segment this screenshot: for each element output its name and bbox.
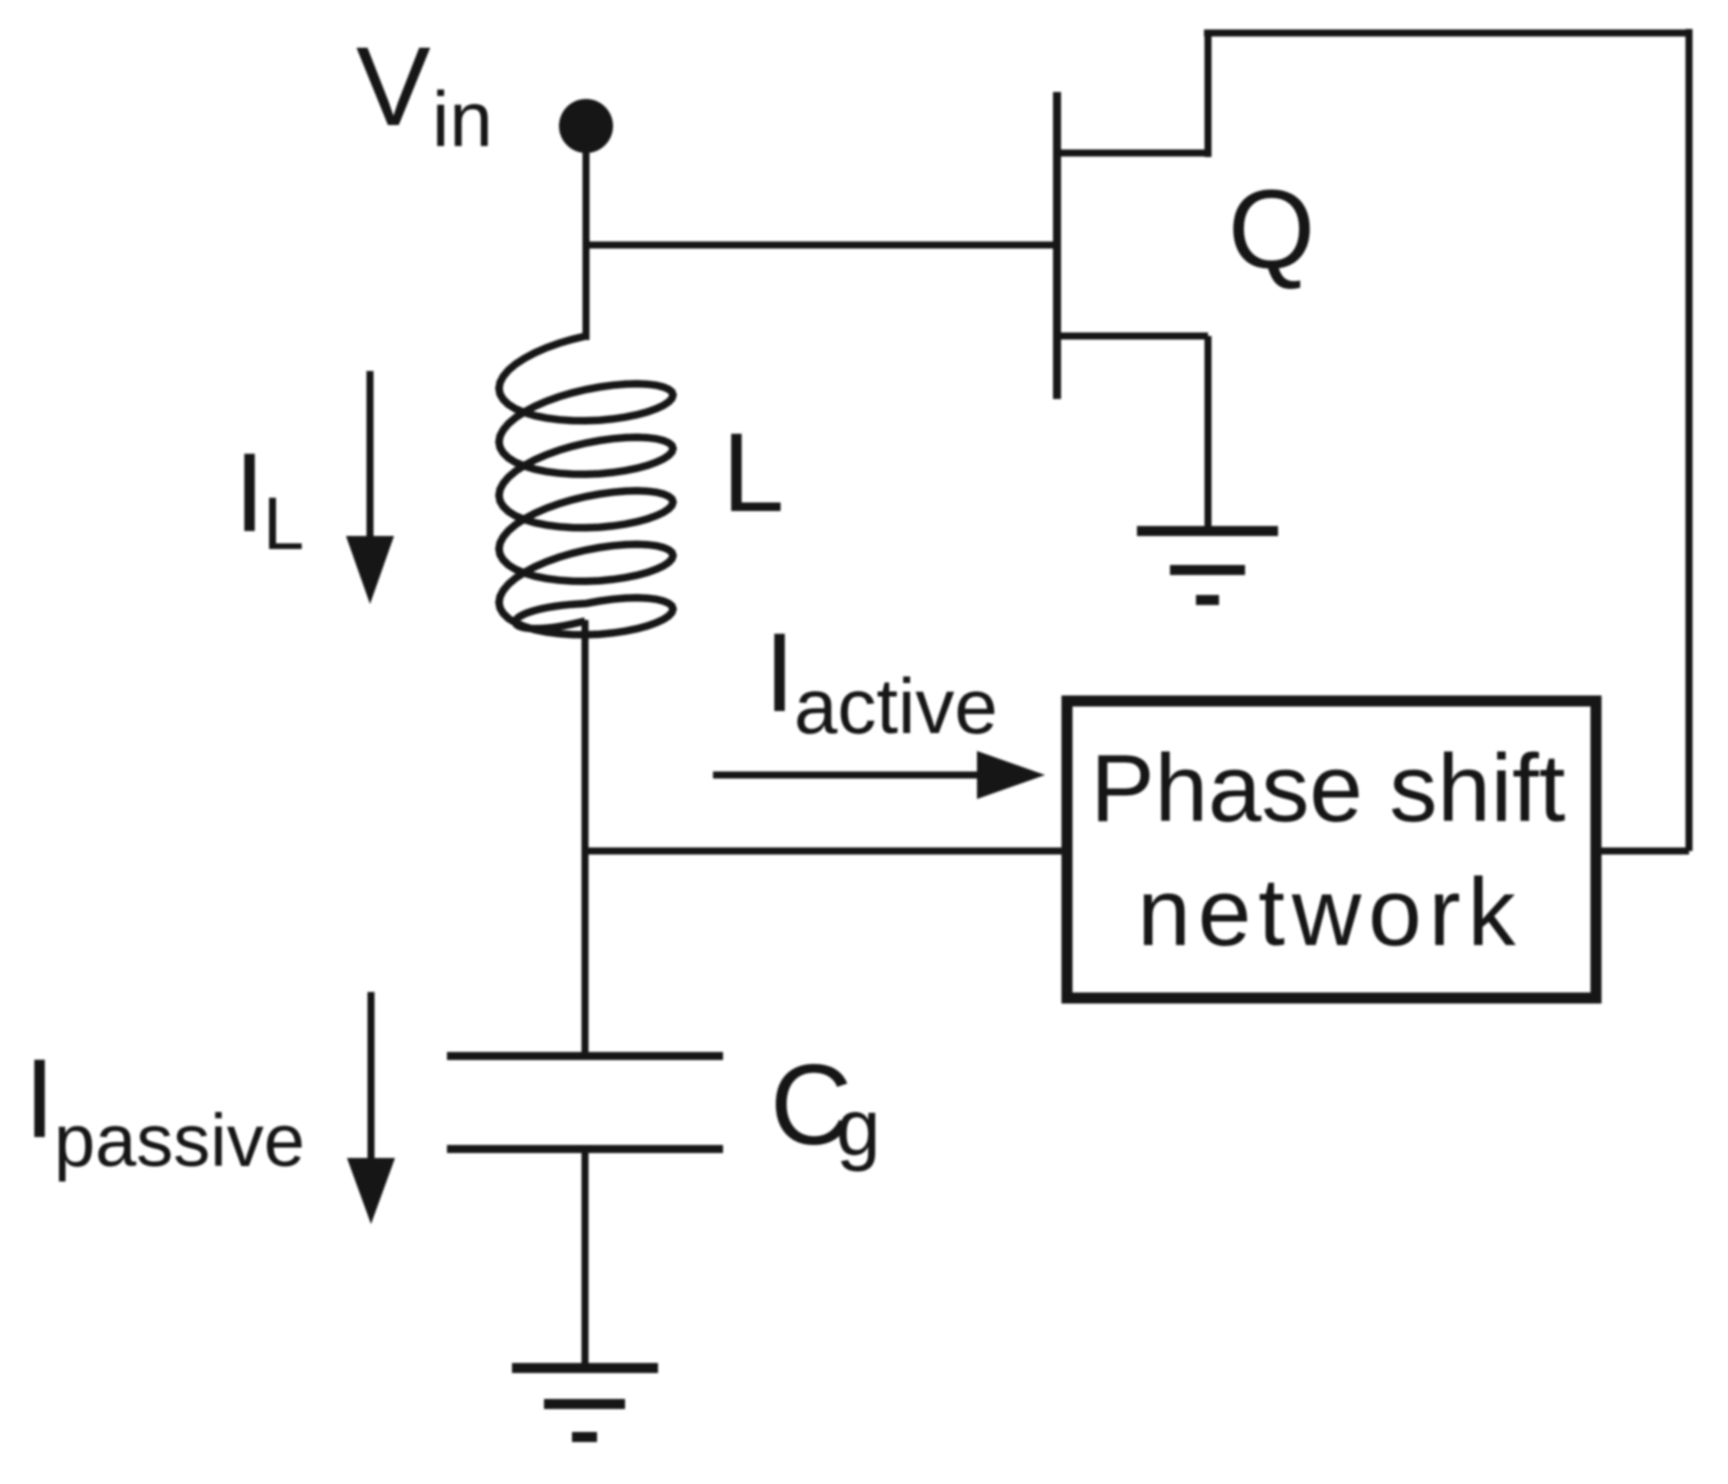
svg-text:g: g bbox=[836, 1083, 881, 1172]
svg-text:Q: Q bbox=[1228, 167, 1315, 292]
transistor Q gate bar bbox=[1053, 92, 1061, 399]
wire feedback right side bbox=[1686, 29, 1693, 851]
transistor Q drain lead bbox=[1057, 150, 1208, 157]
wire inductor bottom to capacitor top plate bbox=[582, 620, 589, 1056]
svg-text:L: L bbox=[263, 482, 304, 565]
svg-text:Phase shift: Phase shift bbox=[1091, 735, 1566, 842]
phase shift network box bbox=[1067, 701, 1596, 998]
svg-text:network: network bbox=[1137, 859, 1522, 966]
inductor L bbox=[499, 336, 673, 635]
svg-text:I: I bbox=[234, 430, 265, 555]
capacitor Cg top plate bbox=[447, 1052, 723, 1060]
svg-text:L: L bbox=[722, 410, 784, 535]
ground (transistor source) bbox=[1137, 531, 1278, 600]
svg-text:I: I bbox=[24, 1036, 55, 1161]
arrow IL (inductor current) bbox=[367, 371, 374, 540]
wire capacitor bottom plate to ground bbox=[582, 1149, 589, 1368]
svg-text:in: in bbox=[432, 75, 493, 163]
svg-text:passive: passive bbox=[54, 1099, 305, 1182]
wire source down to ground bbox=[1205, 336, 1212, 531]
arrow Ipassive (capacitor current) bbox=[368, 992, 375, 1162]
wire feedback to phase shift network output bbox=[1596, 848, 1689, 855]
capacitor Cg bottom plate bbox=[447, 1145, 723, 1153]
wire Vin node to gate of Q bbox=[586, 242, 1057, 249]
wire feedback top bbox=[1204, 30, 1689, 37]
arrow Iactive (current into phase shift network) bbox=[713, 772, 982, 779]
svg-text:V: V bbox=[356, 24, 431, 149]
transistor Q source lead bbox=[1057, 333, 1208, 340]
wire node to phase shift network input bbox=[585, 848, 1067, 855]
wire Vin node down to inductor bbox=[583, 126, 590, 340]
wire drain up to feedback top bbox=[1205, 33, 1212, 157]
node Vin (input terminal dot) bbox=[559, 99, 613, 153]
svg-text:I: I bbox=[764, 610, 795, 735]
svg-text:active: active bbox=[794, 662, 998, 750]
ground (below capacitor) bbox=[512, 1368, 658, 1437]
